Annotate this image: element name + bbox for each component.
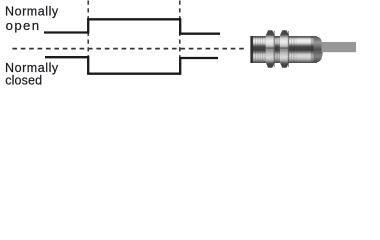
vertical dashed switch-off line	[179, 1, 181, 75]
sensor hex nut 1	[266, 30, 275, 67]
wire: normally-open output waveform	[44, 19, 220, 33]
horizontal dashed sensing-axis line	[12, 48, 247, 50]
sensor hex nut 2	[280, 30, 289, 67]
label "Normally closed"	[5, 61, 59, 88]
svg-text:closed: closed	[5, 73, 42, 87]
sensor body-to-cap seam	[311, 37, 314, 63]
svg-text:Normally: Normally	[5, 5, 59, 19]
sensor cable	[322, 42, 357, 52]
sensor thread shadow between nuts	[275, 36, 280, 62]
sensor threaded barrel	[250, 36, 317, 63]
label "Normally open"	[5, 5, 59, 33]
sensor rear end cap	[314, 37, 323, 62]
wire: normally-closed output waveform	[45, 57, 218, 73]
sensor sensing face	[250, 36, 253, 63]
vertical dashed switch-on line	[87, 1, 89, 75]
svg-text:open: open	[6, 18, 41, 33]
